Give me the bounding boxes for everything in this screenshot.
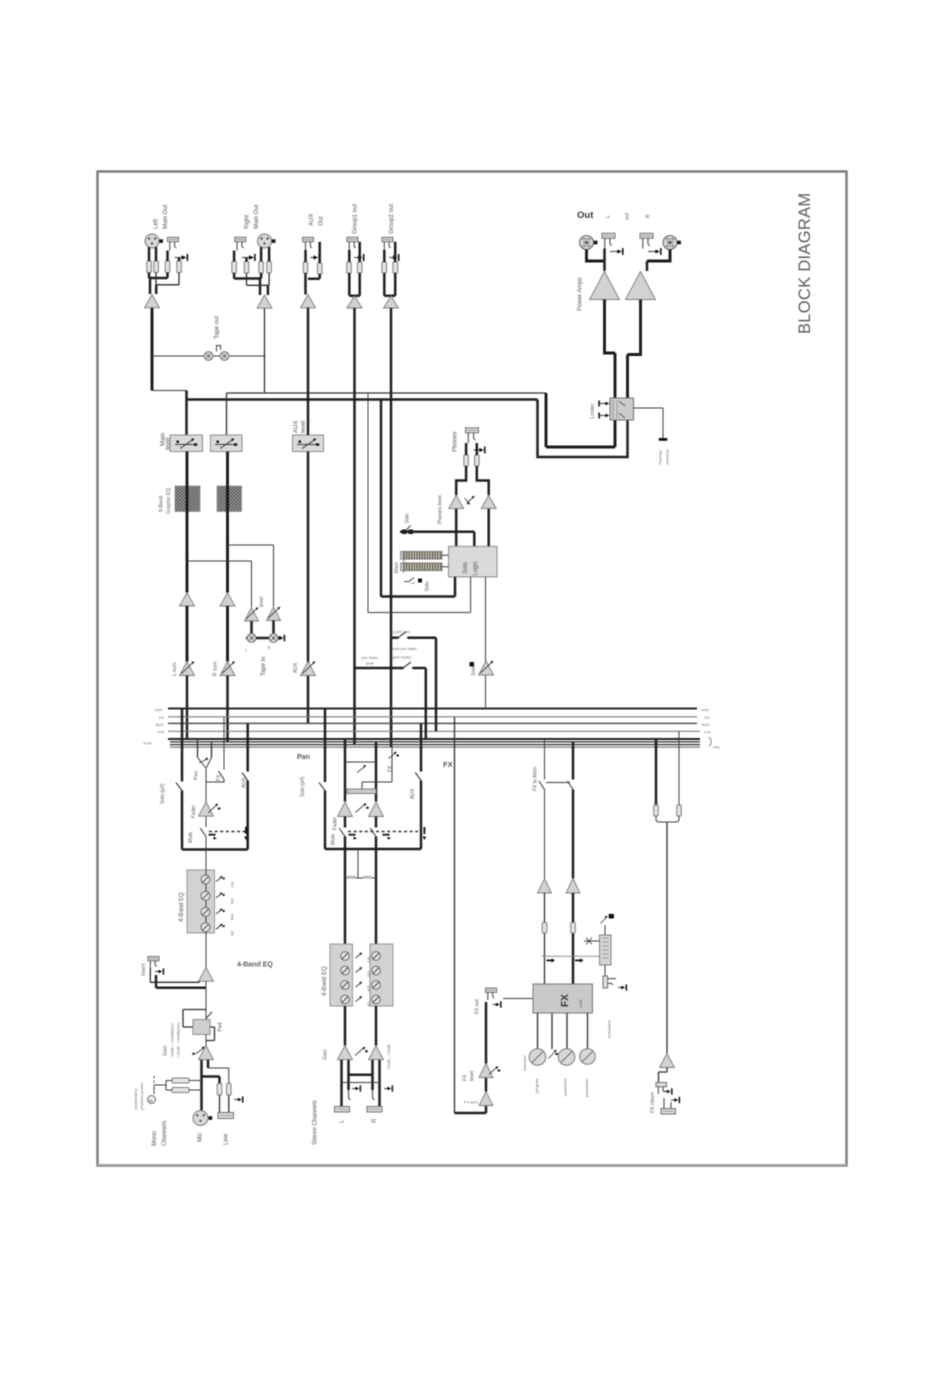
wire main L chain lower	[186, 606, 189, 662]
connector speakon L	[580, 236, 598, 250]
wire through EQ	[205, 870, 207, 933]
svg-text:Solo: Solo	[463, 561, 469, 574]
wire FX box to knobs	[538, 1013, 588, 1049]
svg-text:parameter: parameter	[563, 1077, 568, 1096]
wire Group1 down	[353, 308, 356, 745]
svg-text:solo: solo	[155, 707, 163, 712]
EQ knob band4	[201, 923, 210, 932]
svg-text:L: L	[245, 647, 248, 652]
bus main L	[168, 738, 700, 740]
input arrow FX L	[547, 958, 556, 962]
svg-text:FX: FX	[159, 715, 164, 720]
wire solo logic R in	[368, 577, 471, 613]
wire FX level up	[485, 1002, 488, 1064]
wire meters to solo logic	[442, 555, 449, 567]
mute gang terminal 3	[349, 834, 358, 840]
switch phantom dashed	[153, 1076, 155, 1093]
wire	[149, 273, 168, 295]
resistor	[393, 262, 398, 273]
resistor	[303, 262, 308, 273]
border frame	[98, 172, 847, 1166]
resistor	[154, 261, 159, 273]
EQ knobs stereo R	[372, 952, 381, 1004]
svg-text:overload: overload	[665, 450, 670, 465]
svg-text:FX sum: FX sum	[464, 1100, 478, 1105]
amplifier tape level L	[245, 608, 259, 622]
jack Right Main Out	[235, 237, 246, 250]
svg-text:Logic: Logic	[473, 561, 479, 575]
resistor	[464, 455, 469, 466]
mute gang terminal 5	[423, 827, 427, 840]
wire stereo AUX send	[420, 723, 423, 849]
wire thermal overload	[634, 408, 664, 438]
wire L sum to bus	[186, 676, 189, 740]
wire main L bus run	[187, 391, 538, 436]
wire stereo pan L	[344, 739, 347, 802]
svg-text:pre fader: pre fader	[362, 655, 379, 660]
svg-text:AUX: AUX	[293, 662, 299, 673]
wire	[151, 308, 154, 391]
switch phones source solo	[402, 526, 413, 535]
svg-text:level: level	[301, 421, 307, 433]
svg-text:12k: 12k	[230, 882, 235, 888]
connector XLR Right Main Out	[258, 234, 276, 248]
jack out R	[640, 233, 653, 248]
pad box	[193, 1020, 210, 1035]
wire gain to mic	[202, 1060, 209, 1111]
fader Main level L	[170, 435, 203, 452]
svg-text:post / pre: post / pre	[394, 629, 411, 634]
switch pad bypass	[206, 1012, 212, 1019]
svg-text:Fader: Fader	[333, 817, 339, 830]
wire to pad	[205, 981, 207, 1045]
svg-text:FX: FX	[443, 760, 453, 769]
switch stereo mute R	[370, 828, 376, 837]
wire main L to fader	[152, 390, 187, 392]
amplifier tape level R	[267, 607, 281, 621]
resistor	[571, 923, 576, 934]
RCA connector Tape in L	[247, 634, 256, 643]
control arrow limiter 1	[598, 401, 609, 407]
amplifier phones L	[449, 495, 464, 508]
wire mute gang dashed	[209, 831, 246, 833]
wire speakon R	[647, 250, 670, 262]
svg-text:Solo: Solo	[471, 666, 477, 676]
wire phones L	[456, 443, 466, 495]
svg-text:FXr: FXr	[705, 730, 712, 735]
wire stereo channel L	[344, 817, 347, 945]
switch contact jack out L	[610, 248, 624, 255]
knob FX program	[529, 1049, 546, 1066]
svg-text:AUX: AUX	[410, 788, 416, 799]
svg-text:Tape in: Tape in	[261, 657, 267, 676]
amplifier FX return L	[538, 879, 552, 894]
wire main L chain	[186, 452, 189, 593]
resistor	[475, 455, 480, 466]
svg-text:Mute: Mute	[331, 834, 337, 845]
amplifier mono gain	[192, 1046, 213, 1060]
potentiometer phones level	[465, 496, 475, 504]
wire FX return feed R	[678, 731, 680, 805]
resistor	[165, 261, 170, 273]
EQ trim arrow band4	[216, 924, 235, 936]
meter bar R	[401, 563, 443, 571]
wire	[156, 273, 179, 285]
wire FX return jacks	[659, 1068, 668, 1083]
amplifier Left Main output	[145, 295, 160, 308]
svg-text:400: 400	[366, 985, 371, 992]
switch mono solo	[176, 783, 182, 791]
amplifier L sum	[180, 662, 195, 676]
wire speakon L	[587, 250, 605, 262]
wire FX return merge	[656, 816, 679, 822]
svg-text:Mute: Mute	[188, 832, 194, 843]
wire stereo solo tap	[324, 709, 327, 850]
wire to meters L	[380, 400, 383, 597]
switch contact tape in	[279, 635, 285, 642]
amplifier stereo gain L	[338, 1046, 353, 1060]
resistor	[267, 262, 272, 274]
svg-text:Solo (p/f): Solo (p/f)	[160, 783, 166, 804]
svg-text:AUX: AUX	[309, 214, 315, 226]
amplifier FX return R	[566, 879, 580, 894]
wire jack prongs stereo	[349, 1090, 375, 1100]
svg-text:Insert: Insert	[141, 963, 147, 976]
potentiometer mono pan	[198, 758, 212, 768]
svg-text:Mic: Mic	[198, 1133, 204, 1142]
jack Insert	[148, 957, 164, 975]
svg-text:L sum: L sum	[172, 663, 178, 676]
wire	[149, 247, 179, 261]
svg-text:Power Amps: Power Amps	[578, 277, 584, 311]
wire stereo link	[345, 849, 376, 878]
jack Group2 out	[382, 237, 393, 250]
resistor	[654, 805, 659, 816]
jack FX return 1	[656, 1083, 673, 1095]
jack Left Main Out	[168, 237, 179, 250]
svg-text:L: L	[340, 1119, 346, 1123]
svg-text:Graphic EQ: Graphic EQ	[166, 488, 172, 514]
bypass control cross	[584, 938, 600, 945]
svg-text:400: 400	[230, 913, 235, 920]
RCA connector Tape out L	[204, 352, 213, 361]
connector speakon R	[663, 236, 681, 250]
potentiometer stereo fader	[356, 803, 369, 812]
svg-text:AUX: AUX	[702, 722, 711, 727]
svg-text:Solo: Solo	[405, 513, 411, 523]
amplifier main L	[180, 593, 195, 607]
svg-text:FX: FX	[705, 715, 710, 720]
potentiometer bypass	[601, 914, 614, 935]
EQ trim arrow band3	[216, 909, 235, 921]
graphic EQ block L	[175, 486, 200, 512]
switch contact of jack	[242, 254, 256, 261]
wire stereo input link 1	[349, 1074, 373, 1077]
svg-text:12k: 12k	[366, 957, 371, 963]
switch mono FX	[219, 771, 225, 780]
bus group 2	[170, 746, 700, 748]
svg-text:L: L	[411, 581, 417, 584]
resistor	[177, 261, 182, 273]
knob FX parameter 2	[580, 1049, 596, 1065]
svg-text:Stereo Channels: Stereo Channels	[313, 1100, 319, 1145]
jack Phones	[466, 428, 479, 443]
amplifier phones R	[481, 495, 496, 508]
bus main R	[170, 741, 700, 743]
knob FX parameter 1	[558, 1049, 575, 1066]
wire bypass to footswitch	[604, 965, 606, 976]
solo logic box	[449, 546, 498, 577]
svg-text:Main: Main	[394, 562, 400, 573]
svg-text:-20dB...+20dB: -20dB...+20dB	[386, 1044, 391, 1070]
svg-text:9-Band: 9-Band	[159, 496, 165, 512]
EQ knob band3	[201, 908, 210, 917]
svg-text:FX: FX	[388, 765, 394, 772]
amplifier mono fader	[199, 802, 221, 816]
svg-text:FX out: FX out	[475, 999, 481, 1014]
mute gang terminal 4	[383, 834, 392, 840]
svg-text:R sum: R sum	[213, 662, 219, 676]
svg-text:program: program	[534, 1077, 539, 1093]
svg-text:Phones: Phones	[453, 432, 459, 452]
resistor	[244, 262, 249, 274]
svg-text:4-Band EQ: 4-Band EQ	[179, 892, 185, 922]
EQ knob band2	[201, 891, 210, 900]
svg-text:post: post	[366, 661, 374, 666]
resistor	[217, 1084, 222, 1096]
switch mono mute	[200, 828, 206, 837]
switch FX to main R	[568, 781, 574, 790]
FX processor box	[533, 984, 593, 1013]
bus FX return	[168, 730, 700, 732]
resistor phantom 2	[172, 1088, 189, 1093]
switch contact of jack	[389, 254, 399, 261]
svg-text:Channels: Channels	[162, 1121, 168, 1146]
switch solo pfl blob	[470, 662, 475, 667]
amplifier insert stage	[199, 968, 214, 982]
amplifier Group1 out driver	[347, 296, 362, 308]
switch FX to main L	[539, 781, 545, 790]
wire mono FX send	[206, 717, 224, 782]
wire R sum to bus	[226, 676, 229, 742]
potentiometer FX mid	[549, 1050, 558, 1059]
svg-text:out: out	[625, 212, 631, 220]
svg-text:R: R	[372, 1118, 378, 1123]
switch meter source	[404, 578, 414, 582]
amplifier FX level	[479, 1064, 500, 1078]
resistor	[382, 262, 387, 273]
amplifier stereo gain R	[369, 1046, 384, 1060]
amplifier FX sum	[479, 1092, 493, 1106]
svg-text:Limiter: Limiter	[590, 403, 596, 418]
wire main R chain lower	[226, 606, 229, 662]
bus FX send	[168, 716, 697, 718]
wire tape in tap L	[187, 561, 252, 607]
svg-text:Right: Right	[245, 215, 251, 229]
resistor	[357, 262, 362, 273]
svg-text:Pan: Pan	[297, 754, 310, 761]
svg-text:Fader: Fader	[191, 805, 197, 818]
wire phantom feed	[154, 1081, 202, 1095]
meter bar L	[401, 552, 443, 560]
brace mix buses right	[709, 738, 712, 747]
mute gang terminal 2	[244, 827, 248, 840]
svg-text:Gain: Gain	[323, 1049, 329, 1060]
wire mono AUX send	[246, 723, 249, 849]
svg-text:Post: Post	[144, 741, 153, 746]
limiter box	[610, 398, 634, 420]
svg-text:Pan: Pan	[194, 771, 200, 780]
wire FX loop left	[454, 717, 456, 1113]
resistor phantom 1	[172, 1078, 189, 1083]
link pads	[347, 876, 372, 879]
wire EQ to insert amp	[205, 933, 207, 968]
connector XLR Mic	[193, 1111, 212, 1126]
EQ block mono	[187, 870, 215, 933]
EQ trim arrow band1	[216, 876, 235, 888]
bypass box	[600, 935, 612, 965]
svg-text:R: R	[268, 645, 271, 650]
svg-text:2k5: 2k5	[230, 897, 235, 904]
wire power L to limiter	[605, 300, 616, 399]
wire to meters R	[367, 393, 369, 613]
wire pad loop	[183, 1010, 215, 1041]
amplifier stereo fader L	[338, 802, 353, 817]
svg-text:Main Out: Main Out	[254, 204, 260, 229]
svg-text:AUX: AUX	[156, 722, 165, 727]
wire power R to limiter	[628, 300, 641, 399]
wire FX loop bottom	[455, 1106, 487, 1114]
svg-text:parameter: parameter	[584, 1078, 589, 1097]
switch contact of jack	[175, 254, 189, 261]
svg-text:level: level	[259, 597, 265, 607]
wire stereo inputs L	[342, 1060, 349, 1107]
RCA connector Tape in R	[269, 634, 278, 643]
wire FX return L down	[544, 893, 546, 984]
connector XLR Left Main Out	[145, 234, 163, 248]
amplifier AUX Out driver	[301, 295, 316, 308]
switch contact jack out R	[648, 248, 662, 255]
jack footswitch	[603, 976, 627, 991]
svg-text:Gain: Gain	[163, 1045, 169, 1056]
svg-text:R: R	[646, 214, 652, 218]
svg-text:(pre mute): (pre mute)	[393, 655, 412, 660]
wire stereo EQ to gain	[345, 1006, 376, 1046]
wire Group2 down	[390, 308, 393, 747]
switch mono AUX	[242, 773, 248, 781]
wire	[234, 247, 269, 262]
EQ trim arrows stereo	[356, 953, 372, 1007]
resistor	[317, 263, 322, 274]
RCA connector Tape out R	[220, 352, 229, 361]
mute gang terminal 1	[209, 834, 218, 840]
summing resistor stereo FX	[347, 789, 376, 794]
amplifier solo	[479, 661, 494, 675]
amplifier Group2 out driver	[384, 296, 399, 308]
resistor	[232, 262, 237, 274]
EQ block stereo R	[370, 944, 393, 1006]
switch contact of phones jack	[474, 447, 486, 454]
label: Solo meter	[418, 579, 431, 592]
wire AUX chain	[307, 308, 310, 724]
svg-text:Solo: Solo	[425, 581, 431, 591]
svg-text:Group2 out: Group2 out	[389, 204, 395, 234]
jack out L	[602, 233, 615, 248]
jack stereo R input	[367, 1085, 393, 1112]
wire FX out to box	[503, 998, 533, 1000]
svg-text:FXr: FXr	[158, 730, 165, 735]
wire to limiter L	[538, 400, 628, 458]
wire	[349, 242, 359, 296]
resistor	[677, 805, 682, 816]
svg-text:solo: solo	[702, 707, 710, 712]
svg-text:4-Band EQ: 4-Band EQ	[237, 962, 273, 969]
svg-text:Main Out: Main Out	[163, 204, 169, 229]
wire mono loop bottom	[182, 848, 248, 851]
switch solo pre/post	[391, 632, 437, 732]
bus group 1	[170, 744, 700, 746]
svg-text:Left: Left	[154, 219, 160, 229]
input arrow FX R	[575, 958, 584, 962]
svg-text:mix: mix	[714, 745, 720, 750]
EQ knob band1	[201, 875, 210, 884]
svg-text:FX: FX	[560, 994, 571, 1007]
svg-text:FX return: FX return	[650, 1092, 656, 1113]
wire	[264, 308, 266, 393]
resistor	[542, 923, 547, 934]
svg-text:L: L	[606, 215, 612, 218]
jack stereo L input	[335, 1085, 362, 1112]
resistor	[227, 1084, 232, 1096]
potentiometer stereo gain	[355, 1047, 368, 1056]
EQ block stereo L	[330, 944, 353, 1006]
wire line input branch 2	[202, 1077, 220, 1084]
wire phones feed	[400, 532, 474, 547]
svg-text:+10dB...+60dB(mic): +10dB...+60dB(mic)	[176, 1022, 181, 1058]
wire	[384, 242, 395, 296]
wire solo logic L in	[381, 577, 455, 597]
wire line input branch	[208, 1068, 229, 1084]
control arrow limiter 2	[598, 413, 609, 419]
wire tape out feed	[152, 355, 266, 357]
wire FX return R down	[572, 893, 575, 984]
jack FX return 2	[661, 1097, 680, 1114]
svg-text:48: 48	[148, 1098, 153, 1103]
wire mono pan L	[197, 739, 199, 758]
wire elbow at tape out	[217, 346, 221, 352]
EQ trim arrow band2	[216, 892, 235, 904]
wire insert send	[150, 968, 199, 982]
wire	[234, 273, 268, 295]
svg-text:Pad: Pad	[218, 1022, 224, 1031]
wire FX feed link	[542, 955, 601, 957]
wire insert return	[156, 975, 206, 988]
svg-text:level: level	[470, 1071, 476, 1081]
amplifier power L	[590, 272, 620, 300]
wire mono pan R	[211, 742, 213, 758]
wire stereo FX send	[362, 717, 392, 789]
jack Group1 out	[347, 237, 358, 250]
svg-text:Phones level: Phones level	[438, 495, 444, 524]
svg-text:4-Band EQ: 4-Band EQ	[322, 966, 328, 996]
svg-text:BLOCK DIAGRAM: BLOCK DIAGRAM	[796, 193, 814, 334]
amplifier power R	[626, 272, 656, 300]
wire main R chain	[226, 452, 229, 593]
svg-text:FX to Main: FX to Main	[533, 767, 539, 791]
svg-text:selection: selection	[522, 1055, 527, 1071]
switch contact of jack	[310, 254, 320, 261]
switch stereo mute L	[339, 828, 345, 837]
